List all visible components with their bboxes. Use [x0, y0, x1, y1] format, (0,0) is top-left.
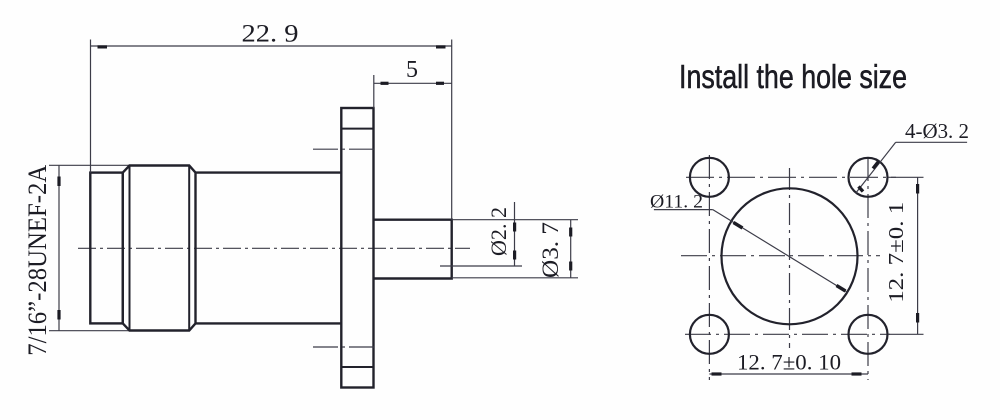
dimension diam 3.7 arrow bottom [569, 262, 572, 271]
dimension 22.9 / 5 extension right [451, 40, 453, 220]
nut chamfer line (left) [129, 166, 131, 330]
bolt square centerline left [708, 155, 710, 380]
flange outline [341, 108, 373, 388]
dimension 5 arrow left [381, 82, 389, 85]
svg-text:7/16”-28UNEF-2A: 7/16”-28UNEF-2A [23, 165, 52, 356]
rear pin outline [374, 220, 452, 279]
diam 11.2 arrow lower-right [837, 286, 846, 292]
main centerline (left view axis) [78, 247, 470, 249]
thread dimension arrow top [57, 177, 60, 187]
4-diam3.2 leader underline [896, 141, 967, 143]
body top edge [196, 171, 342, 173]
center hole circle diam 11.2 [722, 188, 858, 324]
flange bottom hole edge [341, 366, 373, 368]
svg-text:Ø11. 2: Ø11. 2 [650, 192, 703, 213]
svg-text:22. 9: 22. 9 [242, 20, 299, 47]
flange bottom hole centerline [313, 346, 374, 348]
dimension diam 2.2 arrow bottom [513, 251, 516, 260]
mounting hole bottom-left [690, 315, 729, 354]
diam 11.2 leader underline [654, 209, 713, 211]
bolt square centerline right [867, 157, 869, 380]
svg-text:5: 5 [406, 57, 418, 83]
bottom dim line 12.7 [709, 373, 868, 375]
svg-text:12. 7±0. 10: 12. 7±0. 10 [737, 349, 841, 374]
nut chamfer line (right) [188, 166, 190, 330]
svg-text:Ø2. 2: Ø2. 2 [486, 207, 511, 256]
flange top hole edge [341, 128, 373, 130]
svg-text:12. 7±0. 1: 12. 7±0. 1 [884, 202, 908, 303]
threaded stub outline [90, 173, 123, 324]
dimension 22.9 extension left [90, 40, 92, 173]
thread dimension arrow bottom [57, 310, 60, 320]
dimension diam 3.7 line [570, 220, 572, 278]
dimension 22.9 arrow left [98, 45, 108, 48]
dimension diam 3.7 arrow top [569, 228, 572, 237]
dimension 22.9 line [91, 45, 452, 47]
dimension 5 arrow right [436, 82, 444, 85]
right dim arrow bottom [916, 313, 919, 323]
mounting hole bottom-right [849, 315, 888, 354]
diam 11.2 leader diagonal [713, 210, 848, 293]
big circle vertical centerline [789, 168, 791, 348]
bolt square centerline bottom [685, 333, 890, 335]
4-diam3.2 arrow upper-right [873, 162, 879, 169]
coupling nut outline (chamfered) [123, 166, 196, 331]
flange top hole centerline [313, 148, 374, 150]
bottom dim arrow left [712, 372, 722, 375]
mounting hole top-right [849, 158, 888, 197]
svg-text:Install the hole size: Install the hole size [679, 58, 907, 95]
thread major-diameter line (bottom) [49, 330, 130, 332]
bottom dim arrow right [852, 372, 862, 375]
body bottom edge [196, 322, 342, 324]
right dim extension bottom [888, 333, 924, 335]
svg-text:4-Ø3. 2: 4-Ø3. 2 [905, 119, 969, 143]
big circle horizontal centerline [681, 255, 880, 257]
4-diam3.2 arrow lower-left [859, 187, 864, 192]
dimension 5 line [374, 82, 452, 84]
4-diam3.2 leader diagonal [856, 142, 896, 193]
bolt square centerline top [686, 176, 896, 178]
thread major-diameter line (top) [49, 164, 130, 166]
dimension diam 2.2 line [514, 202, 516, 266]
right dim extension top [888, 176, 924, 178]
diam 11.2 arrow upper-left [734, 223, 743, 229]
extension line pin bottom [452, 277, 578, 279]
dimension diam 2.2 arrow top [513, 223, 516, 232]
extension line inner conductor [440, 265, 522, 267]
dimension 5 extension left (flange face) [373, 75, 375, 108]
svg-text:Ø3. 7: Ø3. 7 [538, 222, 563, 278]
extension line pin top [452, 219, 578, 221]
thread dimension line [58, 165, 60, 330]
right dim line 12.7 [917, 177, 919, 334]
mounting hole top-left [690, 158, 729, 197]
right dim arrow top [916, 184, 919, 194]
dimension 22.9 arrow right [436, 45, 446, 48]
